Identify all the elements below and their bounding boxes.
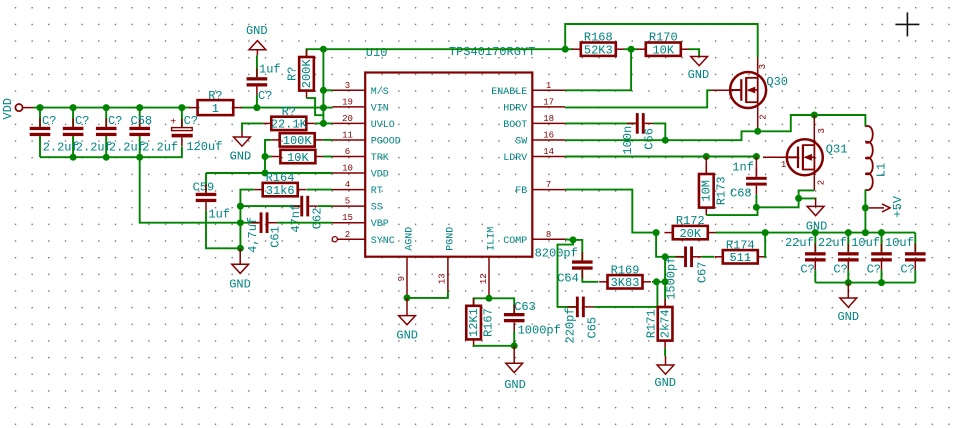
wire	[39, 136, 41, 157]
svg-text:GND: GND	[230, 150, 252, 164]
wire Q31 source pin	[813, 170, 815, 191]
junction	[754, 128, 761, 135]
svg-text:3K83: 3K83	[611, 276, 640, 290]
wire LDRV	[565, 156, 756, 158]
junction	[237, 219, 244, 226]
svg-text:SYNC: SYNC	[371, 236, 395, 247]
svg-text:R167: R167	[482, 308, 496, 337]
junction	[103, 104, 110, 111]
capacitor C67 1500pf	[676, 247, 702, 268]
ground GND AGND	[396, 298, 418, 342]
svg-text:22uf: 22uf	[785, 236, 814, 250]
wire 31k6 right stub	[306, 189, 332, 191]
svg-text:+5V: +5V	[891, 195, 905, 217]
ground GND R170	[688, 57, 710, 82]
svg-text:TPS40170RGYT: TPS40170RGYT	[449, 45, 535, 59]
junction	[178, 104, 185, 111]
ground GND Q31	[806, 198, 828, 233]
wire SS left	[240, 205, 300, 207]
junction	[812, 229, 819, 236]
resistor R168 52K3	[572, 31, 624, 58]
svg-text:C?: C?	[833, 263, 847, 277]
wire C63 bottom	[513, 331, 515, 346]
wire R174 right up	[765, 233, 766, 257]
wire VBP feed	[140, 157, 206, 223]
svg-text:120uf: 120uf	[186, 140, 222, 154]
no-connect circle SYNC	[332, 237, 337, 242]
wire	[181, 108, 183, 128]
wire R169 tie	[652, 281, 665, 283]
junction	[262, 170, 269, 177]
junction	[762, 229, 769, 236]
svg-text:C?: C?	[900, 263, 914, 277]
ground GND C63	[504, 346, 526, 392]
svg-text:18: 18	[543, 114, 554, 124]
svg-text:C63: C63	[514, 300, 536, 314]
wire BOOT	[565, 122, 636, 124]
junction	[320, 104, 327, 111]
wire C59 gnd elbow	[206, 223, 240, 249]
wire Q30 source pin	[757, 102, 759, 131]
svg-text:3: 3	[817, 128, 827, 133]
wire 100K right stub	[323, 139, 332, 141]
junction	[795, 195, 802, 202]
capacitor C? 2.2uf #3	[96, 118, 117, 145]
svg-text:3: 3	[345, 81, 350, 91]
junction	[320, 120, 327, 127]
svg-text:C?: C?	[42, 114, 56, 128]
svg-text:GND: GND	[654, 376, 676, 390]
wire	[881, 233, 883, 253]
junction	[662, 253, 669, 260]
svg-text:8: 8	[546, 230, 551, 240]
pins U10 bottom	[397, 227, 498, 299]
resistor R169 3K83	[599, 263, 651, 290]
svg-text:4,7uf: 4,7uf	[246, 217, 260, 253]
capacitor C63	[504, 304, 525, 331]
capacitor C64	[572, 252, 593, 278]
wire 10K right stub	[323, 156, 332, 158]
svg-text:2.2uf: 2.2uf	[142, 140, 178, 154]
svg-text:22.1K: 22.1K	[271, 118, 308, 132]
svg-text:11: 11	[342, 130, 353, 140]
transistor Q31	[787, 139, 823, 175]
node VDD global label	[1, 98, 33, 120]
wire VBP left	[206, 222, 260, 224]
cursor crosshair	[895, 12, 919, 36]
junction	[628, 46, 635, 53]
svg-text:31k6: 31k6	[266, 184, 295, 198]
pins U10 right	[491, 81, 565, 247]
svg-text:8200pf: 8200pf	[535, 246, 578, 260]
svg-text:GND: GND	[688, 68, 710, 82]
svg-text:R?: R?	[286, 67, 300, 81]
svg-text:10: 10	[342, 164, 353, 174]
wire UVLO stub	[315, 122, 333, 124]
svg-text:GND: GND	[229, 277, 251, 291]
junction	[845, 279, 852, 286]
svg-text:10M: 10M	[700, 180, 714, 202]
resistor R? 10K	[272, 150, 324, 165]
wire R167 bottom	[474, 346, 515, 347]
svg-text:C59: C59	[193, 181, 215, 195]
svg-text:U10: U10	[366, 46, 388, 60]
svg-text:C64: C64	[557, 271, 579, 285]
junction	[878, 279, 885, 286]
svg-text:GND: GND	[246, 24, 268, 38]
wire	[72, 136, 74, 157]
capacitor C? 2.2uf #2	[63, 118, 84, 145]
svg-text:C65: C65	[586, 317, 600, 339]
op-amp U10 TPS40170RGYT body	[365, 73, 532, 257]
wire to GND Q31	[799, 197, 816, 200]
svg-text:7: 7	[546, 180, 551, 190]
svg-text:1: 1	[212, 102, 219, 116]
wire C65 right	[593, 282, 657, 307]
junction	[878, 229, 885, 236]
wire 100K/10K left tie	[265, 140, 271, 173]
svg-text:52K3: 52K3	[584, 44, 613, 58]
wire COMP to C65	[558, 240, 576, 307]
wire VDD rail	[33, 107, 191, 109]
wire COMP to C64	[565, 239, 582, 260]
capacitor C? 22uf #1	[805, 244, 826, 271]
junction	[562, 46, 569, 53]
ground GND output	[837, 283, 859, 325]
capacitor C59	[196, 184, 217, 211]
svg-text:C56: C56	[643, 128, 657, 150]
junction	[845, 229, 852, 236]
svg-text:C?: C?	[258, 89, 272, 103]
wire R168-R170	[624, 48, 638, 50]
svg-text:UVLO: UVLO	[371, 120, 395, 131]
junction	[653, 229, 660, 236]
resistor R172 20K	[664, 214, 716, 241]
wire C56 right elbow	[653, 123, 665, 140]
wire FB	[565, 190, 656, 233]
svg-text:C58: C58	[131, 114, 153, 128]
capacitor C61 4.7uf	[251, 212, 277, 233]
resistor R174 511	[714, 238, 766, 265]
wire Q30 drain pin	[757, 58, 759, 78]
junction	[511, 342, 518, 349]
wire R171 to GND	[664, 348, 666, 356]
svg-text:M/S: M/S	[371, 86, 389, 98]
svg-text:20: 20	[342, 114, 353, 124]
svg-text:1nf: 1nf	[732, 161, 754, 175]
svg-text:R173: R173	[714, 176, 728, 205]
svg-text:2.2uf: 2.2uf	[76, 140, 112, 154]
wire 22.1K to GND	[242, 123, 263, 131]
capacitor C56 100n	[627, 113, 653, 134]
svg-text:C?: C?	[867, 263, 881, 277]
svg-text:3: 3	[758, 64, 768, 69]
wire ILIM right	[489, 298, 514, 313]
junction	[404, 294, 411, 301]
svg-text:FB: FB	[515, 186, 527, 197]
wire C64 bottom to R169	[582, 270, 598, 282]
wire HDRV	[565, 90, 711, 107]
svg-text:GND: GND	[504, 378, 526, 392]
wire output rail bottom	[815, 282, 915, 284]
capacitor C? 2.2uf #1	[30, 118, 51, 145]
svg-text:2: 2	[345, 230, 350, 240]
wire R172 right	[716, 232, 766, 234]
capacitor C65 220pf	[567, 297, 593, 318]
svg-text:R171: R171	[644, 309, 658, 338]
wire C59 bottom	[205, 211, 207, 223]
svg-text:4: 4	[345, 180, 350, 190]
svg-text:SW: SW	[515, 136, 527, 147]
resistor R? 22.1K	[263, 105, 315, 132]
svg-text:Q31: Q31	[826, 143, 848, 157]
wire FB drop	[656, 233, 665, 257]
junction	[320, 87, 327, 94]
pins U10 left	[333, 81, 401, 247]
junction	[703, 153, 710, 160]
junction	[262, 153, 269, 160]
svg-text:5: 5	[345, 197, 350, 207]
junction	[37, 104, 44, 111]
wire 200K top elbow	[307, 49, 324, 57]
svg-text:15: 15	[342, 213, 353, 223]
svg-text:1uf: 1uf	[259, 62, 281, 76]
wire R171 top pin	[664, 300, 666, 308]
wire	[256, 95, 258, 108]
inductor L1	[865, 126, 872, 190]
svg-text:PGND: PGND	[446, 227, 457, 251]
resistor R173 10M	[699, 167, 728, 216]
ground GND below SS/VBP	[229, 248, 251, 291]
wire SW	[565, 131, 758, 140]
svg-text:17: 17	[543, 97, 554, 107]
svg-text:2k74: 2k74	[659, 309, 673, 338]
svg-text:511: 511	[729, 251, 751, 265]
wire ENABLE	[565, 49, 631, 90]
svg-text:LDRV: LDRV	[503, 153, 527, 164]
junction	[653, 278, 660, 285]
junction	[136, 104, 143, 111]
wire R170 to GND	[689, 49, 700, 56]
wire Q31 gate pin	[763, 156, 787, 158]
junction	[753, 153, 760, 160]
svg-text:VDD: VDD	[1, 98, 15, 120]
junction	[662, 278, 669, 285]
wire 10K left stub	[265, 156, 272, 158]
svg-text:10uf: 10uf	[885, 236, 914, 250]
wire Q31 drain pin	[813, 115, 815, 145]
svg-text:C61: C61	[269, 226, 283, 248]
wire PGND elbow	[407, 291, 448, 298]
wire	[814, 270, 816, 283]
svg-text:C67: C67	[696, 261, 710, 283]
svg-text:RT: RT	[371, 186, 383, 197]
svg-text:C?: C?	[75, 114, 89, 128]
capacitor C? 10uf #1	[871, 244, 892, 271]
svg-text:1uf: 1uf	[208, 207, 230, 221]
svg-text:19: 19	[342, 97, 353, 107]
wire VIN stub	[323, 107, 332, 109]
wire R173 bottom elbow	[706, 207, 757, 215]
wire L1 bottom	[864, 190, 866, 233]
wire	[881, 270, 883, 283]
svg-text:2.2uf: 2.2uf	[43, 140, 79, 154]
svg-text:BOOT: BOOT	[503, 120, 527, 131]
svg-text:C?: C?	[184, 114, 198, 128]
ground GND above C?1uf	[246, 24, 268, 55]
wire	[914, 270, 916, 283]
wire	[814, 233, 816, 253]
svg-text:20K: 20K	[679, 227, 701, 241]
svg-text:1000pf: 1000pf	[518, 324, 561, 338]
svg-text:220pf: 220pf	[564, 307, 578, 343]
svg-text:12: 12	[479, 273, 489, 284]
wire	[72, 108, 74, 127]
svg-text:Q30: Q30	[766, 75, 788, 89]
junction	[662, 137, 669, 144]
wire Q31 source elbow	[799, 190, 815, 207]
svg-text:10K: 10K	[652, 44, 674, 58]
wire	[847, 233, 849, 253]
junction	[486, 295, 493, 302]
svg-text:22uf: 22uf	[818, 236, 847, 250]
svg-text:GND: GND	[837, 310, 859, 324]
transistor Q30	[730, 72, 766, 108]
svg-text:10uf: 10uf	[851, 236, 880, 250]
svg-text:PGOOD: PGOOD	[371, 136, 401, 147]
junction	[862, 204, 869, 211]
junction	[237, 203, 244, 210]
wire VDD rail b	[240, 107, 323, 109]
junction	[136, 154, 143, 161]
wire output rail top	[765, 232, 915, 234]
wire Q30 gate pin	[711, 89, 731, 91]
svg-text:47nf: 47nf	[289, 204, 303, 233]
wire 1500pf stub	[665, 256, 684, 258]
junction	[237, 245, 244, 252]
svg-text:+: +	[170, 118, 176, 129]
resistor R164 31k6	[254, 183, 306, 198]
svg-text:HDRV: HDRV	[503, 103, 527, 114]
svg-text:C?: C?	[108, 114, 122, 128]
wire VDD pin net	[206, 172, 333, 174]
svg-text:100K: 100K	[283, 134, 313, 148]
svg-text:12K1: 12K1	[467, 308, 481, 337]
junction	[753, 204, 760, 211]
wire	[105, 136, 107, 157]
svg-text:SS: SS	[371, 203, 383, 214]
ground GND R171	[654, 356, 676, 390]
resistor R? 200K	[286, 50, 314, 99]
svg-text:6: 6	[345, 147, 350, 157]
svg-text:14: 14	[543, 147, 554, 157]
svg-text:9: 9	[397, 276, 407, 281]
wire C67 to R174	[702, 256, 714, 258]
svg-text:GND: GND	[396, 328, 418, 342]
resistor R171 2k74	[644, 300, 672, 349]
wire SS right	[318, 205, 333, 207]
wire	[105, 108, 107, 127]
svg-text:C?: C?	[800, 263, 814, 277]
capacitor C? 120uf	[170, 118, 193, 146]
resistor R167 12K1	[466, 298, 495, 347]
resistor R? 100K	[271, 133, 323, 148]
resistor R170 10K	[637, 31, 689, 58]
svg-text:1: 1	[546, 81, 551, 91]
wire M/S-VIN-UVLO vertical	[322, 49, 324, 123]
junction	[811, 112, 818, 119]
svg-text:2: 2	[759, 114, 769, 119]
wire UVLO sense long	[323, 48, 573, 50]
svg-text:AGND: AGND	[405, 227, 416, 251]
wire R173 top pin	[705, 157, 707, 175]
wire	[139, 136, 141, 157]
svg-text:2: 2	[817, 180, 827, 185]
wire C59 top	[205, 173, 207, 193]
svg-text:1: 1	[728, 92, 733, 102]
svg-text:10K: 10K	[287, 151, 309, 165]
wire input caps bottom rail	[40, 156, 182, 158]
svg-text:200K: 200K	[300, 59, 314, 89]
junction	[103, 154, 110, 161]
svg-text:VDD: VDD	[371, 170, 389, 181]
capacitor C58 2.2uf	[129, 118, 150, 145]
svg-text:COMP: COMP	[503, 236, 527, 247]
svg-text:ENABLE: ENABLE	[491, 87, 527, 98]
svg-text:VIN: VIN	[371, 103, 389, 114]
wire 200K bottom elbow	[307, 98, 324, 115]
wire C68 top pin	[755, 157, 757, 177]
svg-text:ILIM: ILIM	[487, 227, 498, 251]
wire	[39, 108, 41, 127]
svg-text:C68: C68	[730, 186, 752, 200]
wire	[256, 55, 258, 77]
capacitor C62 47nf	[292, 196, 318, 217]
ground GND at 22.1K	[230, 131, 252, 164]
wire to Q30 drain top	[565, 24, 758, 58]
svg-text:2.2uf: 2.2uf	[109, 140, 145, 154]
wire	[139, 108, 141, 127]
junction	[862, 229, 869, 236]
wire	[181, 146, 183, 157]
wire	[847, 270, 849, 283]
wire	[914, 233, 916, 253]
svg-text:L1: L1	[875, 163, 889, 177]
svg-text:13: 13	[438, 273, 448, 284]
wire FB down2	[664, 257, 666, 300]
svg-text:C62: C62	[310, 208, 324, 230]
junction	[70, 104, 77, 111]
node +5V label	[869, 195, 905, 217]
wire ILIM left	[474, 298, 489, 306]
capacitor C? 10uf #2	[905, 244, 926, 271]
wire C68 bottom	[755, 194, 757, 207]
svg-text:16: 16	[543, 130, 554, 140]
svg-text:1500pf: 1500pf	[664, 257, 678, 300]
capacitor C68	[746, 168, 767, 194]
junction	[253, 104, 260, 111]
junction	[320, 46, 327, 53]
capacitor C? 1uf	[247, 69, 268, 96]
resistor R? 1	[189, 89, 242, 116]
wire 31k6 left elbow	[240, 190, 254, 249]
wire C68-R173 tie	[756, 206, 798, 208]
wire VBP right	[277, 222, 332, 224]
wire M/S stub	[323, 89, 332, 91]
svg-text:TRK: TRK	[371, 153, 389, 164]
wire SW to Q31 drain	[758, 115, 866, 131]
junction	[570, 236, 577, 243]
